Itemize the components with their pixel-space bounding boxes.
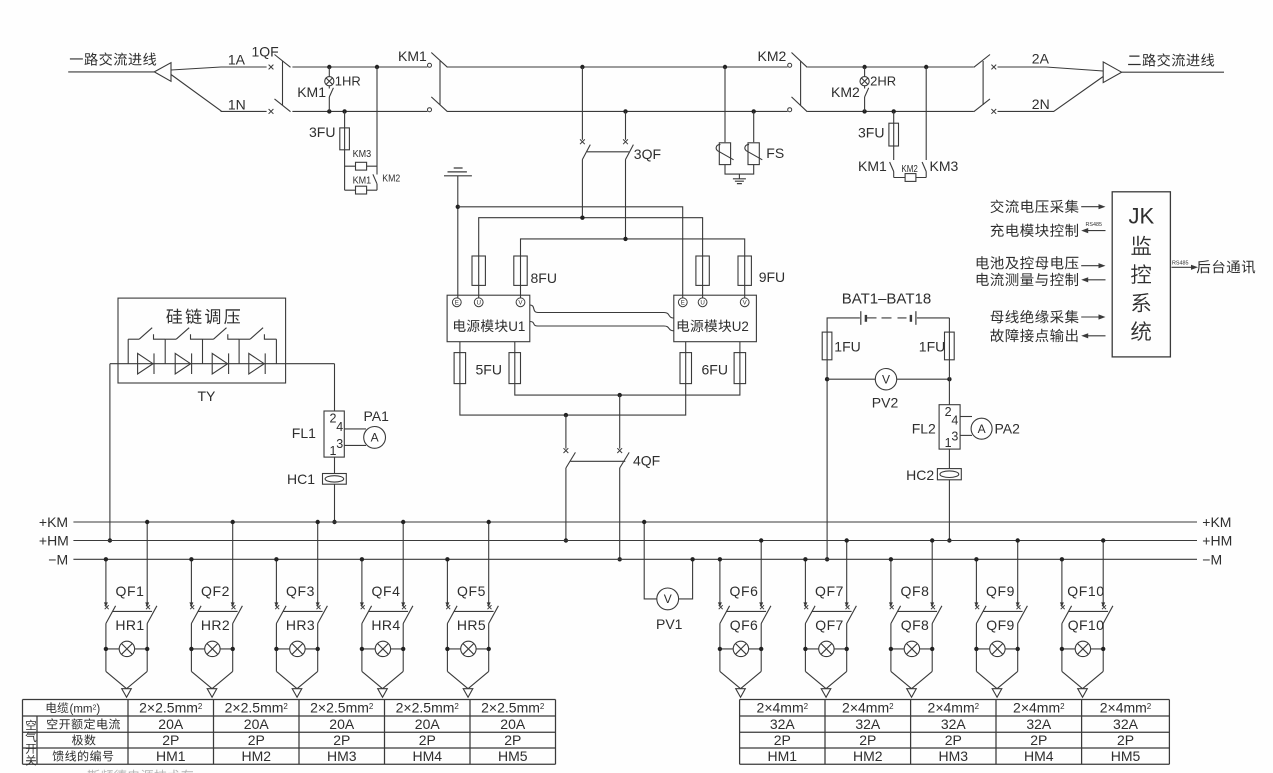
breaker 1QF pole A blade bbox=[275, 55, 291, 68]
svg-text:FL2: FL2 bbox=[912, 420, 936, 436]
arrow 充电模块控制 from JK bbox=[1087, 230, 1105, 232]
junction QF7 pole1 on -M bbox=[803, 557, 807, 561]
label 电缆(mm2) bbox=[47, 702, 69, 713]
svg-text:1HR: 1HR bbox=[335, 74, 361, 89]
breaker 4QF pole 2 upper stub bbox=[619, 395, 621, 449]
diode D4 of TY bbox=[249, 353, 264, 374]
wire QF9 pole2 lower bbox=[1017, 624, 1019, 672]
switch TY bypass 4 bbox=[239, 338, 250, 340]
label 电池及控母电压 bbox=[977, 256, 1079, 269]
wire fuse to U1 U terminal bbox=[478, 285, 480, 298]
wire QF1 converge bbox=[106, 671, 147, 688]
wire FL1 to HC1 bbox=[334, 457, 336, 473]
breaker QF7 link bbox=[812, 610, 852, 612]
terminal V of U2 bbox=[740, 298, 749, 307]
wire lamp 2HR branch middle bbox=[864, 86, 866, 89]
wire lamp row QF5 bbox=[447, 648, 488, 650]
wire QF9 pole1 from -M bbox=[975, 559, 977, 603]
svg-text:KM3: KM3 bbox=[353, 148, 372, 160]
voltmeter PV1 bbox=[657, 588, 679, 610]
switch TY bypass 1 bbox=[128, 338, 139, 340]
breaker 4QF pole 1 upper stub bbox=[565, 415, 567, 449]
junction 4QF pole2 on -M bbox=[618, 557, 622, 561]
wire TY bypass stub 2 bbox=[164, 339, 166, 364]
svg-text:QF6: QF6 bbox=[729, 583, 758, 599]
svg-text:2A: 2A bbox=[1032, 51, 1050, 67]
junction lamp right QF5 bbox=[487, 647, 491, 651]
junction PE/E-bus bbox=[456, 205, 460, 209]
breaker QF4 pole2 blade bbox=[403, 606, 413, 624]
junction lamp left QF4 bbox=[360, 647, 364, 651]
wire HC2 to +HM bbox=[948, 480, 950, 541]
wire N segment KM2 to 2QF bbox=[807, 110, 974, 112]
svg-text:20A: 20A bbox=[500, 716, 526, 732]
table right grid bbox=[740, 700, 1170, 765]
svg-text:HM1: HM1 bbox=[768, 748, 798, 764]
wire 2A to arrow bbox=[998, 67, 1104, 71]
junction PV1 on +KM bbox=[642, 520, 646, 524]
svg-text:2×2.5mm: 2×2.5mm bbox=[139, 700, 198, 716]
wire 3FU to coils bbox=[344, 150, 346, 190]
arrowhead QF8 pole1 bbox=[889, 602, 893, 607]
label 统 bbox=[1131, 321, 1151, 341]
label 控 bbox=[1131, 264, 1151, 284]
svg-text:QF8: QF8 bbox=[900, 583, 929, 599]
svg-text:HM5: HM5 bbox=[498, 748, 528, 764]
wire QF6 pole2 lower bbox=[760, 624, 762, 672]
bus +HM bbox=[73, 540, 1197, 542]
contact KM2 aux (coil circuit left) bbox=[373, 174, 377, 184]
breaker 3QF pole 1 lower stub bbox=[581, 160, 583, 218]
svg-text:+HM: +HM bbox=[39, 533, 69, 549]
breaker QF10 link bbox=[1069, 610, 1109, 612]
diode D2 of TY bbox=[175, 353, 190, 374]
svg-text:JK: JK bbox=[1128, 204, 1154, 229]
wire TY bypass stub 3 bbox=[202, 339, 204, 364]
svg-text:HM4: HM4 bbox=[1024, 748, 1054, 764]
svg-text:RS485: RS485 bbox=[1086, 222, 1102, 228]
svg-text:V: V bbox=[664, 592, 672, 606]
wire FL2 pin4 to PA2 bbox=[960, 416, 972, 418]
arrowhead QF6 pole1 bbox=[718, 602, 722, 607]
contactor KM2 pole A fixed contact bbox=[788, 63, 792, 67]
lamp QF9 of QF9 bbox=[990, 641, 1005, 656]
svg-text:2P: 2P bbox=[859, 732, 876, 748]
junction PV2 tap left bbox=[825, 377, 829, 381]
breaker QF2 link bbox=[198, 610, 238, 612]
contactor KM1 pole N fixed contact bbox=[428, 108, 432, 112]
svg-text:KM1: KM1 bbox=[297, 84, 326, 100]
svg-text:1A: 1A bbox=[228, 51, 246, 67]
wire QF6 converge bbox=[720, 671, 761, 688]
junction QF8 pole2 on bus bbox=[930, 538, 934, 542]
junction lamp left QF8 bbox=[889, 647, 893, 651]
table left grid bbox=[23, 700, 556, 765]
wire TY bypass stub 4 bbox=[238, 339, 240, 364]
wire coil KM2 row right bbox=[894, 177, 927, 179]
wire 1N from arrow to 1QF bbox=[171, 75, 267, 112]
svg-text:2: 2 bbox=[283, 702, 288, 711]
arrowhead QF3 pole2 bbox=[316, 602, 320, 607]
switch TY bypass 3 bbox=[203, 338, 214, 340]
svg-text:3: 3 bbox=[336, 437, 343, 451]
contact KM3 (coil circuit right) bbox=[922, 162, 926, 172]
junction PV2 tap right bbox=[947, 377, 951, 381]
label 空气开关 char 气 bbox=[26, 732, 37, 743]
svg-text:PA1: PA1 bbox=[364, 408, 390, 424]
wire fuse to U1 V terminal bbox=[520, 285, 522, 298]
label 充电模块控制 bbox=[991, 224, 1078, 237]
svg-text:): ) bbox=[96, 704, 100, 716]
svg-text:E: E bbox=[681, 300, 685, 307]
svg-text:HR3: HR3 bbox=[286, 617, 315, 633]
ammeter PA1 bbox=[364, 427, 386, 449]
wire E bus to module U2 bbox=[458, 207, 683, 298]
svg-text:3QF: 3QF bbox=[634, 146, 661, 162]
breaker QF3 pole2 blade bbox=[318, 606, 328, 624]
label 电流测量与控制 bbox=[977, 273, 1078, 286]
junction lamp right QF6 bbox=[759, 647, 763, 651]
junction lamp right QF9 bbox=[1016, 647, 1020, 651]
wire battery mid left bbox=[867, 317, 877, 319]
svg-text:QF10: QF10 bbox=[1067, 583, 1104, 599]
junction TY on +HM bbox=[108, 538, 112, 542]
wire battery top right bbox=[917, 318, 950, 332]
svg-text:32A: 32A bbox=[1113, 716, 1139, 732]
svg-text:6FU: 6FU bbox=[702, 362, 728, 378]
breaker 3QF pole 2 fixed contact bbox=[623, 139, 628, 144]
lamp QF7 of QF7 bbox=[819, 641, 834, 656]
AC input 2 arrow symbol bbox=[1103, 62, 1121, 83]
junction QF6 pole1 on -M bbox=[718, 557, 722, 561]
coil KM1 bbox=[356, 186, 367, 194]
label 馈线的编号 bbox=[53, 750, 114, 761]
breaker QF4 link bbox=[369, 610, 409, 612]
wire TY bypass stub 1 bbox=[127, 339, 129, 364]
breaker 3QF pole 1 upper stub bbox=[581, 67, 583, 140]
svg-text:HM3: HM3 bbox=[939, 748, 969, 764]
junction lamp left QF2 bbox=[189, 647, 193, 651]
breaker 4QF pole 1 blade bbox=[566, 452, 576, 468]
label 交流电压采集 bbox=[991, 200, 1079, 214]
wire coil row KM3 bbox=[345, 165, 377, 167]
feeder arrow QF5 bbox=[463, 689, 473, 698]
switch TY bypass 2 bbox=[165, 338, 176, 340]
junction QF2 pole1 on -M bbox=[189, 557, 193, 561]
wire QF6 pole2 from bus bbox=[760, 541, 762, 604]
svg-text:PV2: PV2 bbox=[872, 395, 899, 411]
fuse (U2 output +) bbox=[739, 353, 741, 384]
svg-text:2×4mm: 2×4mm bbox=[757, 700, 804, 716]
svg-text:HM2: HM2 bbox=[241, 748, 271, 764]
breaker QF6 pole1 blade bbox=[720, 606, 730, 624]
svg-text:U: U bbox=[476, 300, 480, 307]
breaker QF8 link bbox=[898, 610, 938, 612]
svg-text:KM2: KM2 bbox=[901, 163, 918, 175]
junction QF4 pole2 on bus bbox=[401, 520, 405, 524]
wire coil return from L bus bbox=[376, 67, 378, 175]
node: AC source 1 lead-in wire bbox=[68, 71, 154, 73]
wire L bus segment KM1 to KM2 bbox=[448, 66, 788, 68]
junction lamp left QF9 bbox=[974, 647, 978, 651]
svg-text:HM5: HM5 bbox=[1111, 748, 1141, 764]
junction lamp left QF6 bbox=[718, 647, 722, 651]
fuse (U1 output -) bbox=[459, 353, 461, 384]
svg-text:U1: U1 bbox=[508, 319, 525, 334]
svg-text:HM1: HM1 bbox=[156, 748, 186, 764]
wire QF9 pole1 lower bbox=[975, 624, 977, 672]
breaker 3QF pole 1 fixed contact bbox=[580, 139, 585, 144]
breaker 3QF pole 1 blade bbox=[582, 145, 590, 160]
wire QF10 converge bbox=[1062, 671, 1103, 688]
fuse 1FU left bbox=[826, 332, 828, 360]
wire QF8 pole1 lower bbox=[890, 624, 892, 672]
label 空气开关 char 空 bbox=[26, 720, 36, 730]
junction lamp right QF3 bbox=[316, 647, 320, 651]
wire 1A from arrow to 1QF bbox=[171, 67, 267, 70]
wire lamp row QF2 bbox=[191, 648, 232, 650]
feeder arrow QF3 bbox=[292, 689, 302, 698]
breaker QF3 pole1 blade bbox=[276, 606, 286, 624]
wire to arrester FS1 bbox=[724, 67, 726, 142]
wire N bus segment KM1 to KM2 bbox=[448, 110, 788, 112]
junction lamp left QF5 bbox=[445, 647, 449, 651]
coil KM3 bbox=[356, 162, 367, 170]
breaker QF4 pole1 blade bbox=[362, 606, 372, 624]
feeder arrow QF7 bbox=[821, 689, 831, 698]
svg-text:HM4: HM4 bbox=[412, 748, 442, 764]
feeder arrow QF9 bbox=[992, 689, 1002, 698]
label 电源模块U2 bbox=[678, 319, 732, 332]
svg-text:20A: 20A bbox=[244, 716, 270, 732]
wire V bus (via 3QF pole2) bbox=[521, 239, 745, 256]
svg-text:HC2: HC2 bbox=[906, 467, 934, 483]
breaker QF6 pole2 blade bbox=[761, 606, 771, 624]
arrowhead QF2 pole1 bbox=[189, 602, 193, 607]
wire lamp row QF8 bbox=[891, 648, 932, 650]
contactor KM2 pole N fixed contact bbox=[788, 108, 792, 112]
junction QF7 pole2 on bus bbox=[845, 538, 849, 542]
contact KM2 aux (lamp 2HR) bbox=[865, 88, 869, 97]
lamp HR5 of QF5 bbox=[461, 641, 476, 656]
arrowhead QF10 pole1 bbox=[1060, 602, 1064, 607]
breaker QF5 pole2 blade bbox=[489, 606, 499, 624]
junction QF2 pole2 on bus bbox=[231, 520, 235, 524]
svg-text:QF7: QF7 bbox=[815, 583, 844, 599]
wire lamp row QF7 bbox=[805, 648, 846, 650]
terminal U of U1 bbox=[474, 298, 483, 307]
label 二路交流进线 bbox=[1128, 53, 1214, 66]
svg-text:QF1: QF1 bbox=[115, 583, 144, 599]
wire QF2 pole2 lower bbox=[232, 624, 234, 672]
wire fuse to U2 U terminal bbox=[702, 285, 704, 298]
breaker QF2 pole2 blade bbox=[233, 606, 243, 624]
wire module plus bus bbox=[515, 384, 740, 396]
svg-text:2HR: 2HR bbox=[870, 74, 896, 89]
wire PV2 right bbox=[897, 378, 950, 380]
junction QF3 pole1 on -M bbox=[274, 557, 278, 561]
breaker 1QF pole N fixed contact bbox=[269, 109, 274, 114]
shunt FL1 box bbox=[324, 411, 344, 457]
svg-text:HR1: HR1 bbox=[115, 617, 144, 633]
wire QF3 converge bbox=[276, 671, 317, 688]
junction HC1 on +KM bbox=[332, 520, 336, 524]
wire diode chain bbox=[110, 363, 335, 365]
svg-text:HR2: HR2 bbox=[201, 617, 230, 633]
wire lamp row QF4 bbox=[362, 648, 403, 650]
fuse 9FU bbox=[744, 256, 746, 285]
wire lamp row QF10 bbox=[1062, 648, 1103, 650]
junction PV1 on -M bbox=[690, 557, 694, 561]
svg-text:2P: 2P bbox=[419, 732, 436, 748]
sensor HC1 bbox=[323, 474, 347, 485]
wire HC1 to +KM bbox=[334, 484, 336, 522]
wire fuse to U2 V terminal bbox=[744, 285, 746, 298]
svg-text:U: U bbox=[700, 300, 704, 307]
svg-text:HR4: HR4 bbox=[371, 617, 400, 633]
lamp HR3 of QF3 bbox=[290, 641, 305, 656]
breaker 1QF mechanical link bbox=[282, 61, 284, 106]
svg-text:2: 2 bbox=[369, 702, 374, 711]
svg-text:2×2.5mm: 2×2.5mm bbox=[481, 700, 540, 716]
diode D1 of TY bbox=[138, 353, 153, 374]
wire QF4 pole1 from -M bbox=[361, 559, 363, 603]
wire U2 output right bbox=[739, 342, 741, 353]
breaker QF2 pole1 blade bbox=[191, 606, 201, 624]
terminal V of U1 bbox=[516, 298, 525, 307]
svg-text:QF10: QF10 bbox=[1068, 617, 1105, 633]
breaker QF5 link bbox=[454, 610, 494, 612]
svg-text:1QF: 1QF bbox=[252, 44, 279, 60]
svg-text:E: E bbox=[455, 300, 459, 307]
svg-text:2×4mm: 2×4mm bbox=[1100, 700, 1147, 716]
wire PE stem to module U1 E bbox=[457, 176, 459, 298]
diode D3 of TY bbox=[212, 353, 227, 374]
breaker QF8 pole1 blade bbox=[891, 606, 901, 624]
wire QF2 pole1 from -M bbox=[190, 559, 192, 603]
svg-text:3FU: 3FU bbox=[858, 125, 884, 141]
svg-text:1: 1 bbox=[945, 436, 952, 450]
label 故障接点输出 bbox=[990, 329, 1077, 342]
ground PE (module earth) bbox=[444, 168, 472, 176]
svg-text:KM2: KM2 bbox=[758, 48, 787, 64]
voltmeter PV2 bbox=[875, 369, 896, 390]
wire QF5 converge bbox=[447, 671, 488, 688]
wire QF3 pole2 from bus bbox=[317, 522, 319, 603]
svg-text:2×4mm: 2×4mm bbox=[1013, 700, 1060, 716]
svg-text:20A: 20A bbox=[415, 716, 441, 732]
lamp QF8 of QF8 bbox=[904, 641, 919, 656]
fuse (module U2 input) bbox=[702, 256, 704, 285]
breaker 1QF pole A fixed contact bbox=[269, 65, 274, 70]
svg-text:2: 2 bbox=[198, 702, 203, 711]
svg-text:2P: 2P bbox=[945, 732, 962, 748]
regulator TY box bbox=[118, 298, 286, 383]
svg-text:QF9: QF9 bbox=[986, 617, 1014, 633]
wire QF1 pole1 lower bbox=[105, 624, 107, 672]
wire QF2 pole2 from bus bbox=[232, 522, 234, 603]
wire lamp row QF6 bbox=[720, 648, 761, 650]
breaker QF1 link bbox=[113, 610, 153, 612]
wire QF6 pole1 from -M bbox=[719, 559, 721, 603]
breaker 2QF pole A blade bbox=[974, 55, 990, 68]
breaker 3QF link bbox=[587, 151, 629, 153]
junction on N bus x=864.6 bbox=[862, 109, 866, 113]
junction on L bus x=377 bbox=[375, 65, 379, 69]
coil KM2 right bbox=[905, 174, 916, 182]
wire lamp row QF1 bbox=[106, 648, 147, 650]
wire QF10 pole1 from -M bbox=[1061, 559, 1063, 603]
junction lamp right QF10 bbox=[1101, 647, 1105, 651]
svg-text:FL1: FL1 bbox=[292, 425, 316, 441]
wire QF1 pole2 lower bbox=[146, 624, 148, 672]
wire QF8 converge bbox=[891, 671, 932, 688]
junction 4QF pole1 tap bbox=[564, 413, 568, 417]
contactor KM1 mechanical link bbox=[439, 61, 441, 105]
wire lamp row QF3 bbox=[276, 648, 317, 650]
wire QF6 pole1 lower bbox=[719, 624, 721, 672]
arrowhead QF4 pole2 bbox=[401, 602, 405, 607]
breaker 4QF pole 2 blade bbox=[620, 452, 630, 468]
svg-text:2×4mm: 2×4mm bbox=[928, 700, 975, 716]
wire QF3 pole2 lower bbox=[317, 624, 319, 672]
svg-text:4: 4 bbox=[951, 414, 958, 428]
feeder arrow QF6 bbox=[736, 689, 746, 698]
monitor JK box bbox=[1112, 192, 1170, 357]
junction QF6 pole2 on bus bbox=[759, 538, 763, 542]
junction lamp left QF3 bbox=[274, 647, 278, 651]
svg-text:3: 3 bbox=[951, 429, 958, 443]
contact KM1 aux (lamp 1HR) bbox=[329, 88, 333, 97]
wire QF8 pole1 from -M bbox=[890, 559, 892, 603]
svg-text:20A: 20A bbox=[329, 716, 355, 732]
feeder arrow QF10 bbox=[1078, 689, 1088, 698]
svg-text:BAT1–BAT18: BAT1–BAT18 bbox=[842, 290, 932, 307]
arrowhead QF7 pole2 bbox=[845, 602, 849, 607]
wire coil row KM1 bbox=[345, 189, 377, 191]
wire QF2 pole1 lower bbox=[190, 624, 192, 672]
svg-text:QF2: QF2 bbox=[201, 583, 230, 599]
svg-text:QF5: QF5 bbox=[457, 583, 486, 599]
breaker 2QF mechanical link bbox=[982, 61, 984, 105]
wire QF2 converge bbox=[191, 671, 232, 688]
breaker 2QF pole A fixed contact bbox=[991, 65, 996, 70]
svg-text:QF3: QF3 bbox=[286, 583, 315, 599]
junction lamp right QF4 bbox=[401, 647, 405, 651]
junction QF9 pole1 on -M bbox=[974, 557, 978, 561]
junction QF4 pole1 on -M bbox=[360, 557, 364, 561]
junction on L bus x=582.4 bbox=[580, 65, 584, 69]
junction QF9 pole2 on bus bbox=[1016, 538, 1020, 542]
power module U1 box bbox=[447, 295, 530, 342]
svg-text:2: 2 bbox=[975, 702, 980, 711]
svg-text:1FU: 1FU bbox=[919, 339, 945, 355]
wire FL1 pin3 to PA1 bbox=[344, 444, 366, 446]
contact KM1 (coil circuit right) bbox=[890, 162, 894, 172]
junction HC2 on +HM bbox=[947, 538, 951, 542]
breaker QF9 pole1 blade bbox=[976, 606, 986, 624]
wire QF9 pole2 from bus bbox=[1017, 541, 1019, 604]
breaker 2QF pole N blade bbox=[974, 99, 990, 112]
wire QF1 pole1 from -M bbox=[105, 559, 107, 603]
junction QF1 pole2 on bus bbox=[145, 520, 149, 524]
svg-text:2N: 2N bbox=[1032, 96, 1050, 112]
svg-text:FS: FS bbox=[766, 145, 784, 161]
fuse 3FU left bbox=[344, 128, 346, 150]
watermark text (cropped) bbox=[88, 770, 194, 773]
junction on N bus x=625.5 bbox=[623, 109, 627, 113]
wire U bus (via 3QF pole1) bbox=[479, 218, 703, 256]
